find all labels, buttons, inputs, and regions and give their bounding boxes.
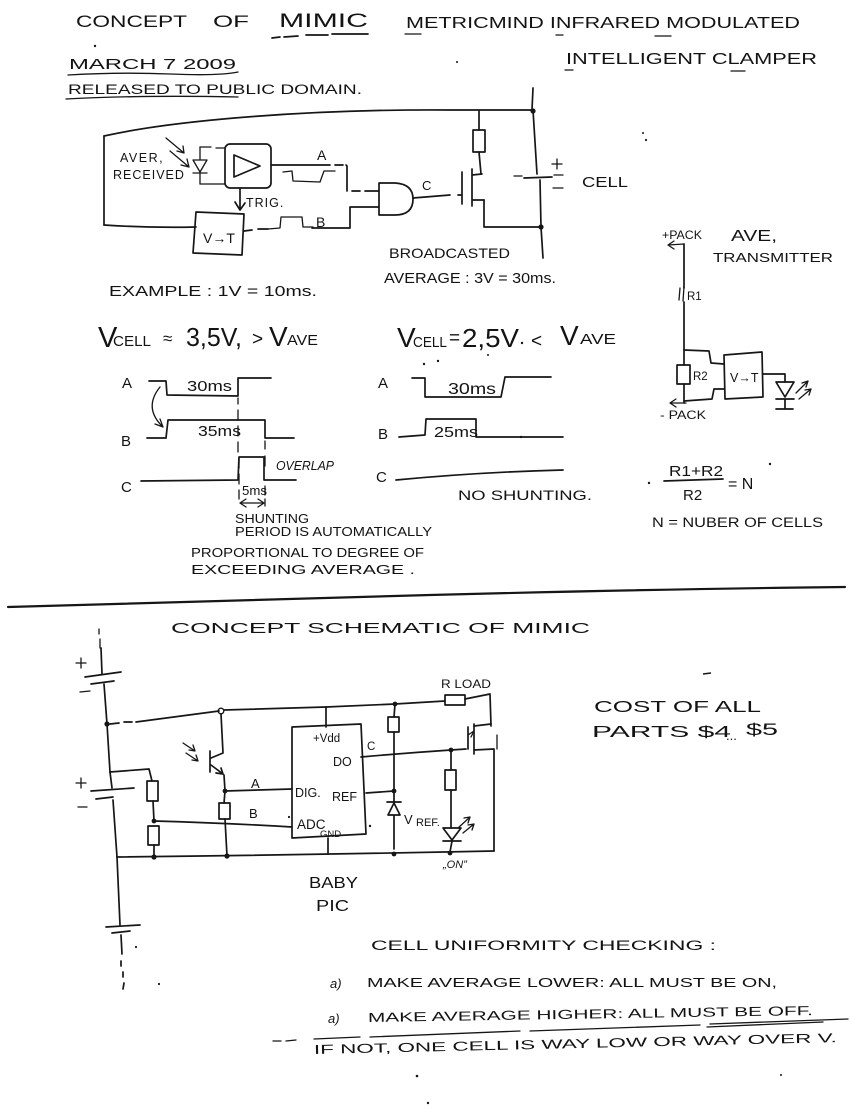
svg-text:AVERAGE : 3V = 30ms.: AVERAGE : 3V = 30ms. xyxy=(384,271,556,287)
photodiode D1 xyxy=(193,147,207,184)
V-T converter U4 box xyxy=(724,352,763,399)
svg-text:EXAMPLE : 1V = 10ms.: EXAMPLE : 1V = 10ms. xyxy=(109,284,317,300)
LED D2 xyxy=(776,382,794,408)
svg-text:V→T: V→T xyxy=(730,371,759,385)
svg-text:25ms: 25ms xyxy=(434,425,478,441)
svg-text:R2: R2 xyxy=(683,487,702,504)
dashed vertical 2 xyxy=(264,441,266,506)
arrow 5ms span xyxy=(240,499,264,507)
svg-text:RELEASED TO PUBLIC DOMAIN.: RELEASED TO PUBLIC DOMAIN. xyxy=(68,82,362,97)
svg-text:OVERLAP: OVERLAP xyxy=(276,459,335,473)
svg-text:CELL: CELL xyxy=(582,174,628,191)
mosfet Q3 right tick xyxy=(496,735,498,749)
svg-text:PIC: PIC xyxy=(316,898,349,915)
resistor R-a xyxy=(147,781,158,801)
section divider line xyxy=(8,587,845,607)
svg-text:CELL: CELL xyxy=(413,334,447,351)
junction dot gate wire xyxy=(449,748,454,753)
svg-text:B: B xyxy=(378,426,388,443)
junction dot xyxy=(538,224,543,229)
waveform B xyxy=(147,420,294,438)
svg-text:<: < xyxy=(531,331,542,352)
svg-text:B: B xyxy=(316,214,325,230)
cell B3 minus xyxy=(78,806,87,808)
svg-text:CELL: CELL xyxy=(113,333,151,350)
wire node to VT top xyxy=(684,350,724,364)
resistor R1 marks xyxy=(679,287,684,301)
svg-text:„ON”: „ON” xyxy=(442,859,468,871)
svg-text:- PACK: - PACK xyxy=(660,410,706,422)
svg-text:V: V xyxy=(560,320,579,351)
middle resistor R-d from top rail xyxy=(394,704,395,791)
AND gate U3 xyxy=(379,183,413,215)
svg-text:METRICMIND INFRARED MODULATE: METRICMIND INFRARED MODULATED xyxy=(406,15,800,32)
cell B2 plus xyxy=(76,658,86,668)
junction dot REF xyxy=(392,789,397,794)
svg-text:R LOAD: R LOAD xyxy=(441,677,491,691)
wire resistor to rail xyxy=(153,845,155,857)
cell B2 minus xyxy=(80,691,90,692)
svg-text:AVE,: AVE, xyxy=(731,228,777,245)
waveform C xyxy=(141,457,296,481)
underline C of CLAMPER xyxy=(731,70,745,72)
cell B3 plates xyxy=(91,788,134,799)
svg-text:V→T: V→T xyxy=(203,230,235,246)
mosfet Q3 drain xyxy=(474,724,491,726)
resistor R-b xyxy=(148,826,159,845)
svg-text:REF.: REF. xyxy=(416,817,440,829)
transistor Q1 channel xyxy=(472,169,484,206)
svg-text:+Vdd: +Vdd xyxy=(313,733,340,745)
svg-text:B: B xyxy=(121,433,131,450)
svg-text:R1: R1 xyxy=(687,291,702,303)
underline M of MODULATED xyxy=(655,35,671,37)
cell B3 plus xyxy=(76,778,86,788)
svg-text:AVE: AVE xyxy=(580,331,616,348)
svg-text:...: ... xyxy=(726,728,737,743)
wire between divider resistors xyxy=(153,801,154,821)
phototransistor Q2 emitter xyxy=(211,765,225,791)
svg-text:=: = xyxy=(449,328,460,349)
svg-text:30ms: 30ms xyxy=(448,381,496,398)
svg-text:a): a) xyxy=(330,976,342,991)
wire R2 bottom xyxy=(683,384,685,403)
V-T converter U2 box xyxy=(193,212,244,255)
svg-text:PROPORTIONAL TO DEGREE OF: PROPORTIONAL TO DEGREE OF xyxy=(191,545,424,560)
mosfet Q3 arrow xyxy=(468,731,474,737)
underline released xyxy=(66,96,238,99)
svg-text:DIG.: DIG. xyxy=(295,786,321,800)
svg-text:AVER,: AVER, xyxy=(120,151,164,165)
svg-text:TRIG.: TRIG. xyxy=(246,196,284,210)
svg-text:MARCH 7 2009: MARCH 7 2009 xyxy=(69,56,236,73)
junction dot divider xyxy=(152,819,157,824)
op-amp U1 triangle xyxy=(234,155,260,177)
light arrow 1 xyxy=(166,138,184,153)
wire to divider resistors xyxy=(110,769,152,781)
arrow to +pack xyxy=(668,241,684,249)
wire B from V-T xyxy=(244,207,379,231)
junction dot top rail 2 xyxy=(393,702,398,707)
svg-text:BROADCASTED: BROADCASTED xyxy=(389,245,510,261)
svg-text:R2: R2 xyxy=(693,371,708,383)
wire A from amp xyxy=(271,165,379,191)
junction dot emitter xyxy=(223,789,228,794)
right resistor R-e xyxy=(450,750,452,828)
svg-text:3,5V,: 3,5V, xyxy=(186,322,242,352)
cell B1 wire top xyxy=(533,110,537,174)
svg-text:V: V xyxy=(404,812,413,827)
fraction bar xyxy=(664,479,723,481)
svg-text:INTELLIGENT CLAMPER: INTELLIGENT CLAMPER xyxy=(566,51,817,68)
Vdd lead xyxy=(325,707,327,727)
left wire down xyxy=(107,724,110,772)
junction dots on rail xyxy=(151,854,156,859)
svg-text:MAKE AVERAGE LOWER: ALL MU: MAKE AVERAGE LOWER: ALL MUST BE ON, xyxy=(367,975,777,990)
op-amp U1 box xyxy=(225,144,271,188)
cell B1 plates xyxy=(524,177,552,178)
underline M of METRICMIND xyxy=(405,33,421,35)
cell B1 plus xyxy=(552,159,562,169)
svg-text:PARTS $4: PARTS $4 xyxy=(592,724,732,741)
LED D3 xyxy=(443,828,461,852)
wire REF to PIC xyxy=(366,791,394,793)
svg-text:A: A xyxy=(122,375,132,392)
svg-text:>: > xyxy=(252,329,263,350)
collector terminal circle xyxy=(218,708,224,714)
svg-text:BABY: BABY xyxy=(309,875,358,892)
svg-text:CONCEPT: CONCEPT xyxy=(76,12,187,31)
svg-text:GND: GND xyxy=(320,829,341,840)
svg-text:R1+R2: R1+R2 xyxy=(669,463,723,480)
underline MIMIC xyxy=(272,34,368,38)
svg-text:MAKE AVERAGE HIGHER: ALL M: MAKE AVERAGE HIGHER: ALL MUST BE OFF. xyxy=(368,1003,813,1025)
phototransistor Q2 light arrows xyxy=(183,743,198,761)
svg-text:DO: DO xyxy=(333,755,352,769)
svg-text:PERIOD IS AUTOMATICALLY: PERIOD IS AUTOMATICALLY xyxy=(235,524,432,539)
LED D3 arrows xyxy=(458,817,474,833)
wire loop left vertical xyxy=(103,136,105,225)
svg-text:5ms: 5ms xyxy=(242,483,268,498)
svg-text:AVE: AVE xyxy=(287,332,318,349)
svg-text:OF: OF xyxy=(213,12,249,31)
cell B1 wire bottom xyxy=(540,180,543,258)
wire pack down xyxy=(683,244,685,365)
wire top arc xyxy=(104,110,533,136)
wire VT to LED xyxy=(763,374,785,382)
resistor R2 xyxy=(677,365,690,384)
svg-text:A: A xyxy=(378,375,388,392)
svg-text:REF: REF xyxy=(332,790,357,804)
arrow -pack xyxy=(670,399,686,407)
long dashed rule xyxy=(273,1019,848,1041)
svg-text:C: C xyxy=(367,741,375,753)
LED arrows xyxy=(796,381,811,399)
top rail to PIC and RLOAD xyxy=(224,701,445,710)
svg-text:C: C xyxy=(376,469,387,486)
bottom rail xyxy=(117,851,494,857)
waveform A xyxy=(149,378,271,396)
transistor Q1 mosfet gate bar xyxy=(458,172,462,204)
resistor R drain xyxy=(479,111,481,174)
svg-text:C: C xyxy=(121,479,132,496)
underline BE OFF xyxy=(707,1022,823,1027)
svg-text:CONCEPT SCHEMATIC OF MIMIC: CONCEPT SCHEMATIC OF MIMIC xyxy=(171,620,590,637)
wire B to PIC xyxy=(154,821,292,827)
left wire through cell to rail xyxy=(110,772,117,857)
phototransistor Q2 collector xyxy=(211,714,223,758)
PIC U5 box xyxy=(292,724,366,838)
resistor R LOAD xyxy=(445,695,465,705)
wire R2 bottom to VT xyxy=(684,389,724,401)
cell B2 plates xyxy=(85,672,121,684)
svg-text:35ms: 35ms xyxy=(198,424,241,440)
svg-text:V: V xyxy=(269,321,288,352)
svg-text:COST OF ALL: COST OF ALL xyxy=(594,699,762,716)
svg-text:NO SHUNTING.: NO SHUNTING. xyxy=(458,488,592,503)
svg-text:C: C xyxy=(422,178,431,193)
wire RLOAD to mosfet drain xyxy=(465,694,491,726)
wire DO to gate (C) xyxy=(361,749,466,757)
phototransistor Q2 base bar xyxy=(209,751,211,772)
junction dot top left xyxy=(104,721,109,726)
svg-text:2,5V: 2,5V xyxy=(462,323,520,353)
light arrow 2 xyxy=(170,151,189,167)
svg-text:N = NUBER OF CELLS: N = NUBER OF CELLS xyxy=(652,515,823,530)
dashed wire top xyxy=(99,629,100,648)
waveform A xyxy=(412,377,551,397)
waveform sketch B xyxy=(268,217,313,229)
wire A to PIC xyxy=(225,789,292,791)
waveform B xyxy=(399,419,563,437)
trig arrow xyxy=(235,189,245,210)
svg-text:CELL UNIFORMITY CHECKING :: CELL UNIFORMITY CHECKING : xyxy=(371,938,716,953)
svg-text:A: A xyxy=(251,776,260,791)
wire source down xyxy=(484,200,541,227)
svg-text:TRANSMITTER: TRANSMITTER xyxy=(713,250,833,265)
svg-text:a): a) xyxy=(328,1011,340,1026)
wire C output xyxy=(413,195,450,198)
dashed vertical 1 xyxy=(238,398,239,499)
svg-text:EXCEEDING AVERAGE .: EXCEEDING AVERAGE . xyxy=(191,562,415,577)
svg-text:≈: ≈ xyxy=(163,329,172,348)
wire rail down to battery B4 xyxy=(117,857,120,925)
svg-text:$5: $5 xyxy=(746,720,778,739)
svg-text:= N: = N xyxy=(728,476,753,493)
zener V REF xyxy=(387,791,401,849)
wire cell to node xyxy=(104,684,107,724)
svg-text:RECEIVED: RECEIVED xyxy=(113,168,185,182)
svg-text:MIMIC: MIMIC xyxy=(279,11,368,32)
wire photodiode to amp (dashed) xyxy=(200,147,225,184)
cell B4 tail dashes xyxy=(121,935,124,989)
cell B2 top wire xyxy=(101,648,102,674)
underline I of INFRARED xyxy=(556,34,563,36)
dash-dot wire right xyxy=(110,711,219,724)
waveform sketch A xyxy=(283,171,335,182)
mosfet Q3 source xyxy=(474,749,494,851)
svg-text:30ms: 30ms xyxy=(187,379,232,395)
waveform C flat xyxy=(396,470,563,480)
wire loop bottom xyxy=(104,225,196,227)
underline I of INTELLIGENT xyxy=(565,69,573,71)
svg-text:A: A xyxy=(317,147,327,163)
svg-text:+PACK: +PACK xyxy=(662,230,702,242)
mosfet Q3 channel xyxy=(473,724,475,754)
svg-text:B: B xyxy=(249,806,258,821)
PIC gnd lead xyxy=(327,838,329,854)
cell B4 plates xyxy=(106,925,140,933)
resistor R-c below emitter xyxy=(224,791,227,856)
wire top right stub up xyxy=(532,88,533,110)
LED ground bar xyxy=(776,408,793,410)
svg-text:IF NOT, ONE CELL IS WAY: IF NOT, ONE CELL IS WAY LOW OR WAY OVER … xyxy=(314,1030,837,1057)
junction dot top rail xyxy=(530,108,535,113)
underline date xyxy=(68,72,238,75)
mosfet Q3 gate bar xyxy=(467,727,469,749)
curved arrow A to B xyxy=(152,387,163,427)
